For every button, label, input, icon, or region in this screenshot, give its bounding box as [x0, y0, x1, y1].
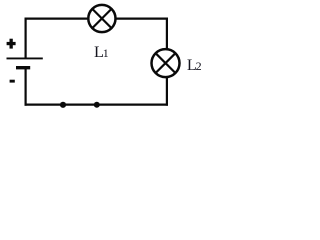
svg-text:L2: L2	[187, 56, 202, 74]
svg-text:L1: L1	[94, 43, 109, 61]
